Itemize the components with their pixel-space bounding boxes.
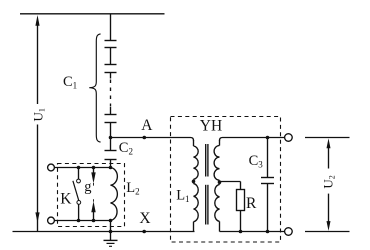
svg-text:g: g [84,179,91,195]
top bus wire [20,13,165,15]
svg-text:C1: C1 [63,74,77,91]
svg-text:X: X [139,210,150,227]
node X [142,230,146,234]
terminal circle top-left [48,164,55,171]
terminal circle secondary top [285,134,293,142]
svg-text:A: A [141,117,153,134]
U2 reference lines [305,137,350,139]
label U1 [31,108,47,121]
inductor L2 [111,168,118,221]
svg-text:C3: C3 [249,153,264,170]
svg-text:R: R [246,195,257,212]
terminal circle secondary bottom [285,228,293,236]
capacitor C2 [105,138,117,168]
capacitor stack C1 [105,14,117,138]
dashed box YH unit [171,117,281,243]
resistor R branch [220,182,245,234]
wire box top [54,167,110,169]
svg-text:K: K [60,190,72,207]
svg-text:C2: C2 [119,140,133,157]
svg-text:L2: L2 [126,180,139,197]
ground [104,221,118,247]
transformer core [206,144,208,225]
transformer primary winding + L1 [192,140,199,232]
dashed box K unit [58,164,125,227]
transformer secondary winding [214,140,221,232]
switch K [73,168,81,221]
terminal circle bottom-left [48,217,55,224]
wire secondary top [220,138,285,141]
svg-text:YH: YH [200,117,222,134]
svg-text:L1: L1 [176,187,189,204]
wire box bottom [54,220,110,222]
U1 source arrow [35,15,39,231]
U2 arrow [327,138,331,231]
capacitor C3 [261,138,274,234]
label U2 [320,175,336,188]
wire node A [111,138,194,141]
svg-text:U2: U2 [320,175,336,188]
wire secondary bottom [220,231,285,233]
svg-text:U1: U1 [31,108,47,121]
spark gap g [91,168,95,221]
bottom bus wire (X wire) [13,231,195,233]
brace for C1 [89,34,100,142]
